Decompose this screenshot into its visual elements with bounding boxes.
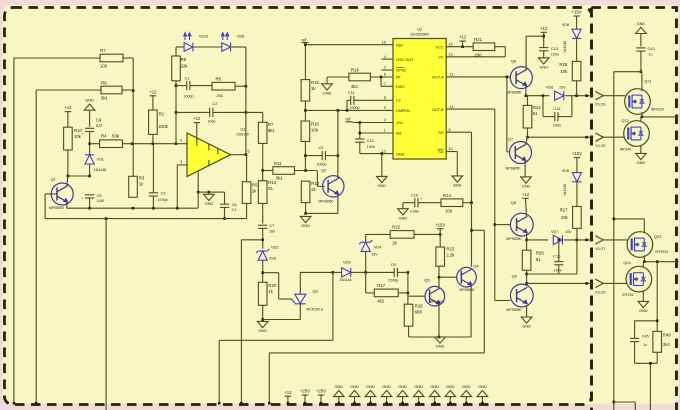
svg-text:2k4: 2k4	[663, 342, 671, 347]
wire R7 right	[123, 58, 133, 91]
svg-text:15: 15	[449, 42, 453, 46]
svg-text:MPS8050: MPS8050	[460, 288, 475, 292]
svg-text:IRFZ44: IRFZ44	[622, 293, 633, 297]
LED VD10	[184, 32, 209, 51]
wire C9 left	[305, 155, 322, 157]
svg-text:C12: C12	[367, 138, 374, 143]
ground (C10)	[398, 209, 409, 221]
svg-text:CMPEN: CMPEN	[396, 109, 410, 113]
svg-text:VD2: VD2	[271, 244, 279, 249]
svg-text:1N4148: 1N4148	[94, 168, 107, 172]
wire R11 right	[295, 169, 318, 172]
svg-text:Q8: Q8	[511, 200, 516, 205]
svg-text:SD: SD	[438, 150, 444, 154]
power +15V (VD8a)	[572, 10, 582, 30]
resistor R4	[100, 134, 123, 148]
svg-text:2,2k: 2,2k	[446, 253, 455, 258]
wire SS column to Q4	[470, 203, 473, 267]
wire Q9 base	[495, 225, 510, 301]
wire Q1 base	[45, 194, 57, 219]
thyristor Q3 (MCR100-6)	[295, 288, 323, 311]
svg-text:R5: R5	[252, 182, 258, 187]
svg-text:GND: GND	[522, 184, 531, 189]
svg-text:R19: R19	[351, 67, 359, 72]
wire Q2 collector	[337, 154, 340, 178]
power +15V (VD8b)	[572, 151, 582, 172]
wire Q2 emitter bus	[306, 212, 338, 214]
mosfet Q21 (IRF9Z34)	[625, 78, 664, 114]
power +12 (bottom pin)	[284, 390, 292, 405]
svg-text:10n: 10n	[269, 229, 275, 233]
svg-text:VC: VC	[438, 56, 444, 60]
svg-text:MPS8050: MPS8050	[507, 308, 522, 312]
wire ref to IN- pin2	[353, 121, 394, 124]
svg-text:SS: SS	[438, 131, 444, 135]
svg-text:2,0: 2,0	[96, 123, 103, 128]
wire Q2 emitter	[337, 195, 339, 214]
wire VD2 bottom	[261, 260, 264, 282]
wire node A to R4	[90, 143, 100, 145]
svg-text:+15V: +15V	[572, 10, 582, 15]
svg-text:X1:23: X1:23	[595, 101, 605, 106]
svg-text:GND: GND	[398, 384, 407, 389]
svg-text:51: 51	[268, 186, 273, 191]
resistor R11	[273, 161, 295, 181]
svg-text:C9: C9	[391, 262, 396, 267]
resistor R16	[301, 121, 319, 142]
svg-text:R8: R8	[181, 57, 187, 62]
svg-text:R17: R17	[377, 283, 385, 288]
capacitor C1	[184, 75, 194, 98]
svg-text:U2: U2	[417, 27, 422, 32]
svg-text:Q6: Q6	[511, 58, 516, 63]
svg-text:GND: GND	[462, 384, 471, 389]
wire X1:25 line	[528, 136, 594, 138]
wire half-bridge2 out	[644, 260, 678, 263]
capacitor C9 (2200p)	[388, 262, 398, 282]
svg-text:GND: GND	[382, 384, 391, 389]
wire Q24 source	[642, 291, 644, 302]
wire bus to border	[105, 219, 107, 410]
svg-text:4k2: 4k2	[377, 299, 385, 304]
diode VD2 (6V8)	[256, 244, 278, 260]
svg-text:1N4148: 1N4148	[563, 184, 567, 196]
svg-text:Q3: Q3	[313, 288, 318, 293]
wire R22 left	[366, 233, 391, 235]
wire VD8b to R27	[576, 182, 578, 207]
svg-text:100: 100	[445, 208, 453, 213]
ground (Q9)	[521, 317, 532, 329]
wire R7b link	[246, 112, 263, 122]
svg-text:GND: GND	[334, 384, 343, 389]
wire CMPEN pin9	[305, 109, 393, 112]
svg-text:0,68: 0,68	[97, 199, 104, 203]
resistor R7 (9k1)	[258, 122, 275, 143]
svg-text:3: 3	[180, 160, 182, 164]
ground (bottom row 3)	[365, 384, 376, 405]
wire C7 bottom	[261, 228, 264, 248]
svg-text:1N4148: 1N4148	[563, 41, 567, 53]
svg-text:4700p: 4700p	[158, 198, 168, 202]
svg-text:VD8: VD8	[237, 34, 244, 38]
wire shutdown spur	[268, 230, 484, 404]
wire REF net	[304, 43, 393, 80]
capacitor C11	[348, 90, 360, 110]
svg-text:3: 3	[384, 66, 386, 70]
svg-text:Q24: Q24	[623, 260, 631, 265]
wire R16 bottom	[304, 142, 307, 171]
svg-text:C3: C3	[161, 190, 166, 195]
IC pin numbers right	[449, 42, 454, 151]
wire Q3 cathode	[263, 304, 301, 320]
svg-text:GND: GND	[414, 384, 423, 389]
wire C9b left	[366, 271, 395, 273]
svg-text:GND: GND	[436, 344, 445, 349]
wire OUT B pin14	[446, 109, 496, 226]
svg-text:2: 2	[180, 138, 182, 142]
svg-text:8: 8	[449, 128, 451, 132]
connector X1:25	[585, 133, 624, 148]
wire R24 top	[527, 96, 529, 106]
wire C15 top	[558, 240, 560, 262]
wire R26 top	[526, 240, 528, 250]
svg-text:+25V: +25V	[316, 389, 326, 394]
svg-text:Q21: Q21	[644, 78, 651, 83]
power +12 (op-amp)	[193, 116, 201, 138]
ground (Q24)	[638, 301, 649, 313]
svg-text:GND: GND	[639, 308, 648, 313]
wire Q9 collector	[525, 274, 528, 285]
power +25V (bottom pin 1)	[300, 389, 310, 405]
wire R21 to VC	[446, 47, 505, 57]
svg-text:+12: +12	[284, 390, 292, 395]
svg-text:1000p: 1000p	[184, 94, 194, 98]
op-amp U1	[180, 127, 249, 177]
wire VD4 node down	[366, 272, 375, 293]
wire R20 bottom	[261, 305, 264, 321]
svg-text:16: 16	[382, 40, 386, 44]
wire output column	[245, 47, 248, 156]
connector X1:29	[585, 279, 626, 294]
wire VD4 column	[365, 234, 367, 272]
resistor R23	[436, 246, 455, 266]
ground (bottom row 4)	[381, 384, 392, 405]
svg-text:6V8: 6V8	[270, 257, 276, 261]
wire Q9 emitter	[526, 305, 528, 317]
svg-text:+12: +12	[149, 89, 157, 94]
resistor R21	[473, 37, 495, 58]
wire C3	[152, 144, 154, 209]
wire VD8a to R25	[576, 38, 578, 61]
svg-text:IN1: IN1	[396, 132, 402, 136]
transistor Q6	[507, 58, 533, 94]
svg-text:+12: +12	[540, 26, 548, 31]
capacitor C43	[636, 46, 654, 57]
svg-text:R22: R22	[392, 225, 400, 230]
wire R11 left	[263, 170, 273, 172]
svg-text:GND: GND	[377, 183, 386, 188]
ground (Q22)	[636, 153, 647, 165]
wire op-amp output	[231, 154, 246, 156]
svg-text:51: 51	[533, 111, 538, 116]
wire SD pin10	[446, 152, 457, 176]
wire emitter gnd bus	[409, 336, 472, 339]
resistor R3	[129, 175, 145, 197]
svg-text:GND: GND	[478, 384, 487, 389]
svg-text:100n: 100n	[551, 52, 559, 56]
wire X1:27 line	[527, 239, 594, 242]
svg-text:12: 12	[382, 149, 386, 153]
svg-text:10k: 10k	[311, 128, 319, 133]
resistor R1	[149, 110, 169, 134]
svg-text:GND: GND	[399, 215, 408, 220]
wire Q1 collector node	[68, 175, 90, 177]
transistor Q4	[457, 263, 480, 291]
svg-text:Q5: Q5	[424, 277, 429, 282]
resistor R8	[172, 56, 189, 81]
svg-text:2: 2	[384, 118, 386, 122]
svg-text:MCR100-6: MCR100-6	[307, 307, 324, 311]
wire IC gnd drop	[381, 154, 383, 177]
svg-text:Q22: Q22	[621, 118, 628, 123]
wire input net	[132, 142, 187, 145]
wire Q3 anode	[300, 271, 334, 294]
svg-text:R9: R9	[101, 80, 107, 85]
wire R15 bottom	[304, 101, 307, 121]
wire op-amp pin4 ground	[197, 171, 200, 208]
capacitor C2	[208, 101, 218, 123]
diode VD6 (15V)	[546, 86, 566, 101]
wire R19 right RT	[370, 76, 393, 79]
svg-text:RT: RT	[396, 76, 402, 80]
svg-text:R27: R27	[560, 207, 568, 212]
wire inverting column	[175, 81, 178, 144]
svg-text:R13: R13	[268, 180, 276, 185]
capacitor C15	[553, 254, 563, 273]
wire to Q2 base	[317, 171, 324, 187]
wire snubber top	[635, 262, 659, 332]
capacitor C6	[220, 202, 237, 212]
svg-text:+12: +12	[459, 35, 467, 40]
svg-text:MPS8050: MPS8050	[429, 300, 444, 304]
wire VD3 right	[351, 271, 367, 274]
wire C5 bottom	[88, 198, 91, 210]
wire Q4 emitter	[470, 285, 472, 337]
resistor R49	[653, 331, 671, 352]
IC U2 SG3525AN	[393, 27, 446, 159]
svg-text:OSC OUT: OSC OUT	[396, 58, 414, 62]
svg-text:R21: R21	[474, 37, 482, 42]
wire Q1 collector	[67, 176, 68, 186]
wire C13 bottom	[543, 51, 545, 58]
wire C43 bottom	[640, 51, 643, 73]
wire Q1 emitter	[66, 202, 68, 208]
svg-text:R6: R6	[216, 77, 222, 82]
connector X1:27	[585, 236, 627, 251]
svg-text:R49: R49	[663, 332, 671, 337]
wire R5 bottom	[246, 203, 248, 218]
svg-text:1: 1	[384, 129, 386, 133]
svg-text:GND: GND	[453, 183, 462, 188]
transistor Q1	[49, 177, 73, 210]
capacitor C45	[630, 333, 649, 346]
svg-text:C13: C13	[551, 46, 558, 51]
ground (bottom row 9)	[461, 384, 472, 405]
svg-text:IRF9Z34: IRF9Z34	[655, 250, 668, 254]
svg-text:15V: 15V	[565, 230, 572, 234]
svg-text:14: 14	[450, 105, 454, 109]
svg-text:R15: R15	[311, 80, 319, 85]
ground (bottom row 10)	[477, 384, 488, 405]
svg-text:9k1: 9k1	[268, 128, 276, 133]
svg-text:R7: R7	[100, 48, 106, 53]
wire Q22 source	[640, 145, 642, 154]
wire Q21 source	[641, 112, 644, 118]
resistor R18	[404, 303, 423, 326]
svg-text:220k: 220k	[159, 124, 169, 129]
resistor R22	[390, 225, 414, 246]
resistor R15	[301, 80, 319, 101]
wire C1 left	[176, 85, 187, 87]
svg-text:CA3140: CA3140	[237, 133, 249, 137]
svg-text:R7: R7	[268, 122, 274, 127]
svg-text:MPS8050: MPS8050	[506, 166, 521, 170]
svg-text:REF: REF	[396, 43, 404, 47]
power +12 (Q6)	[526, 26, 548, 48]
wire Q5 emitter	[438, 304, 440, 337]
ground (above C4)	[84, 98, 95, 127]
capacitor C14	[553, 106, 561, 127]
svg-text:+12: +12	[522, 192, 530, 197]
svg-text:VD8: VD8	[562, 169, 569, 173]
mosfet Q24 (IRFZ44)	[622, 260, 651, 297]
wire R7 left to border	[14, 58, 100, 404]
svg-text:GND: GND	[430, 384, 439, 389]
svg-text:SYNC: SYNC	[396, 69, 407, 73]
wire drain rail top	[613, 72, 642, 404]
wire C12 bottom GND pin12	[360, 142, 393, 155]
svg-text:C43: C43	[648, 46, 655, 51]
svg-text:5: 5	[384, 96, 386, 100]
wire OSC OUT stub	[382, 58, 394, 60]
ground (bottom row 6)	[413, 384, 424, 405]
svg-text:R14: R14	[443, 193, 451, 198]
svg-text:5k1: 5k1	[101, 96, 109, 101]
wire R7b bottom	[261, 143, 264, 171]
wire R22 right	[414, 233, 442, 236]
resistor R24	[523, 105, 541, 128]
ground (bottom row 7)	[429, 384, 440, 405]
svg-text:2200p: 2200p	[388, 278, 398, 282]
transistor Q7	[506, 136, 532, 170]
svg-text:0,1: 0,1	[232, 208, 237, 212]
svg-text:GND: GND	[637, 160, 646, 165]
svg-text:C1: C1	[185, 75, 190, 80]
svg-text:R16: R16	[311, 121, 319, 126]
svg-text:Q4: Q4	[473, 263, 479, 268]
svg-text:C11: C11	[348, 90, 355, 95]
svg-text:R25: R25	[559, 62, 567, 67]
svg-text:IRFZ44: IRFZ44	[620, 147, 631, 151]
wire Q8 base	[495, 224, 510, 226]
svg-text:DISC: DISC	[396, 85, 405, 89]
svg-text:C14: C14	[553, 106, 561, 111]
svg-text:C15: C15	[553, 254, 560, 259]
svg-text:MPS8050: MPS8050	[319, 199, 334, 203]
svg-text:53k: 53k	[112, 134, 120, 139]
svg-text:C2: C2	[213, 101, 218, 106]
wire Q8 emitter	[525, 233, 528, 241]
resistor R25	[559, 61, 580, 80]
svg-text:MPS8050: MPS8050	[507, 90, 522, 94]
wire C9 right	[325, 155, 338, 157]
svg-text:1u: 1u	[643, 343, 647, 347]
wire X1:29 line	[527, 282, 594, 284]
svg-text:VD10: VD10	[199, 34, 208, 38]
svg-text:U1: U1	[241, 127, 246, 132]
capacitor C12	[355, 138, 375, 149]
wire Q4 base	[439, 276, 457, 278]
svg-text:0.68u: 0.68u	[410, 209, 419, 213]
svg-text:R4: R4	[101, 134, 107, 139]
power +15V (R23)	[435, 222, 445, 247]
svg-text:680: 680	[415, 310, 423, 315]
capacitor C5	[82, 193, 104, 203]
wire Q22 drain	[640, 117, 642, 121]
resistor R26	[522, 250, 544, 270]
ground (bottom row 2)	[349, 384, 360, 405]
connector X1:23	[585, 92, 625, 107]
resistor R5	[242, 182, 258, 204]
svg-text:R12: R12	[311, 181, 319, 186]
svg-text:C7: C7	[269, 223, 274, 228]
svg-text:100: 100	[100, 64, 108, 69]
wire Q6 emitter	[525, 86, 528, 97]
svg-text:GND: GND	[446, 384, 455, 389]
transistor Q9	[507, 274, 534, 312]
svg-text:C4: C4	[96, 118, 102, 123]
svg-text:13: 13	[449, 53, 453, 57]
svg-text:GND: GND	[350, 384, 359, 389]
svg-text:MPS8050: MPS8050	[49, 206, 64, 210]
ground (IC U2)	[377, 176, 388, 188]
wire X1:23 line	[526, 94, 594, 97]
diode VD3 (1N4148)	[340, 259, 352, 281]
ground (bottom row 5)	[397, 384, 408, 405]
svg-text:R11: R11	[274, 161, 282, 166]
svg-text:+15V: +15V	[572, 151, 582, 156]
wire R13 to C7	[262, 203, 264, 223]
ground (C13)	[538, 58, 549, 70]
capacitor C4	[82, 118, 103, 137]
wire Q5 base	[408, 295, 425, 297]
wire C45 top	[634, 321, 636, 339]
wire Q5 collector	[438, 266, 441, 288]
svg-text:C10: C10	[411, 192, 419, 197]
wire feedback bus	[45, 217, 247, 220]
svg-text:+25V: +25V	[300, 389, 310, 394]
svg-text:GND: GND	[258, 328, 267, 333]
resistor R20	[258, 282, 276, 305]
transistor Q2	[319, 167, 344, 203]
svg-text:100p: 100p	[208, 120, 216, 124]
svg-text:100n: 100n	[367, 145, 375, 149]
wire Q6 collector	[525, 36, 527, 70]
wire C11 left	[347, 100, 351, 110]
svg-text:15V: 15V	[371, 252, 378, 256]
svg-text:R3: R3	[139, 175, 145, 180]
wire Q3 node to border	[218, 272, 333, 404]
